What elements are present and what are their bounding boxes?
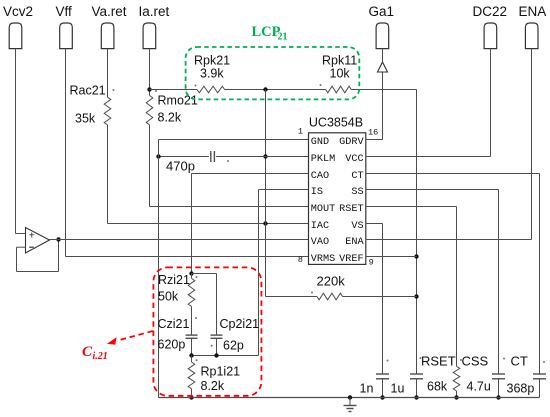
wire peak-limit divider vertical [263,90,267,297]
green dashed box LCP21 [186,24,360,99]
svg-text:368p: 368p [507,382,535,396]
svg-text:1: 1 [298,127,303,137]
svg-text:VREF: VREF [339,254,363,265]
wire Ia.ret lead [147,49,151,96]
svg-text:CAO: CAO [311,171,329,182]
svg-text:SS: SS [351,187,363,198]
resistor RSET 68k [420,354,460,400]
terminal Ga1 [369,4,395,49]
wire ground rail [159,397,540,399]
svg-text:VAO: VAO [311,237,329,248]
svg-text:CT: CT [511,354,528,369]
terminal Vff [56,4,73,49]
svg-text:ENA: ENA [345,237,364,248]
label Ci21 [82,344,108,362]
wire Vcv2 to op-amp + [16,49,26,234]
svg-text:GDRV: GDRV [339,137,364,148]
wire Rac21 to IAC pin [108,125,309,226]
svg-text:CT: CT [351,171,363,182]
capacitor Czi21 620p [158,317,198,352]
wire Rzi21 to Czi21 [191,306,193,335]
terminal ENA [519,4,547,49]
svg-text:4.7u: 4.7u [467,380,491,394]
wire CT pin to CT cap [366,174,540,375]
svg-text:Rac21: Rac21 [70,84,106,98]
capacitor Cp2i21 62p [211,274,260,356]
buffer triangle Ga1 [378,49,388,72]
svg-text:Ia.ret: Ia.ret [139,4,170,19]
wire Rpk21 to Rpk11 [225,87,326,91]
svg-text:68k: 68k [427,380,448,394]
op-amp U1 voltage follower [26,228,50,254]
wire IS pin down to compensation [259,190,309,356]
wire SS pin to CSS cap [366,190,499,375]
wire op-amp feedback [17,237,61,271]
resistor Rpk21 3.9k [194,54,230,93]
svg-text:i.21: i.21 [93,351,108,362]
svg-text:9: 9 [369,258,374,268]
op-amp U2 IC UC3854B [298,116,378,268]
wire op-amp output to VAO pin [50,239,309,241]
wire Vff to VRMS pin [66,49,309,257]
svg-text:470p: 470p [166,159,195,174]
svg-text:IAC: IAC [311,221,329,232]
svg-text:Ga1: Ga1 [369,4,395,19]
wire CAO pin down to compensation [192,174,309,274]
svg-text:+: + [29,230,35,242]
wire GDRV to Ga1 [366,72,383,140]
svg-text:8.2k: 8.2k [158,111,182,125]
wire VS pin to 1n cap [366,224,383,375]
red dashed box Ci21 [153,267,261,395]
resistor Rac21 35k [70,84,115,126]
svg-text:620p: 620p [158,338,186,352]
svg-text:3.9k: 3.9k [200,67,224,81]
ground symbol [344,395,357,411]
terminal DC22 [473,4,508,49]
svg-text:8: 8 [298,255,303,265]
resistor Rp1i21 8.2k [188,356,240,400]
resistor Rzi21 50k [158,273,198,306]
svg-text:Rmo21: Rmo21 [158,94,198,108]
wire RSET pin to RSET resistor [366,207,457,367]
wire Va.ret lead [107,49,109,98]
svg-text:1u: 1u [391,382,405,396]
wire Rmo21 to MOUT pin [150,125,309,207]
svg-text:Rpk11: Rpk11 [322,54,357,68]
wire 220k to VREF rail [343,296,417,298]
resistor 220k [311,274,345,300]
svg-text:ENA: ENA [519,4,547,19]
svg-text:50k: 50k [158,290,179,304]
svg-text:RSET: RSET [339,204,363,215]
svg-text:GND: GND [311,137,329,148]
svg-text:VRMS: VRMS [311,254,335,265]
node CAO top junction [189,271,216,278]
svg-text:21: 21 [278,32,288,43]
svg-text:Rp1i21: Rp1i21 [201,365,241,379]
wire IAC to 220k [266,296,318,298]
capacitor 470p [166,151,229,174]
capacitor CSS 4.7u [460,354,505,400]
svg-text:VCC: VCC [345,154,363,165]
node compensation bottom [189,353,258,357]
svg-text:IS: IS [311,187,323,198]
wire VCC to DC22 [366,49,491,157]
svg-text:Vff: Vff [56,4,73,19]
wire Czi21 to bottom node [191,338,193,355]
svg-text:Rzi21: Rzi21 [158,273,190,287]
svg-text:Vcv2: Vcv2 [3,4,33,19]
svg-text:10k: 10k [330,67,351,81]
svg-text:1n: 1n [360,382,374,396]
svg-text:62p: 62p [223,339,244,353]
red arrow annotation [107,331,153,345]
svg-text:Rpk21: Rpk21 [194,54,230,68]
svg-text:VS: VS [351,221,363,232]
svg-text:Czi21: Czi21 [158,317,190,331]
svg-text:8.2k: 8.2k [201,379,225,393]
svg-text:UC3854B: UC3854B [309,116,363,130]
resistor Rmo21 8.2k [146,90,198,125]
svg-text:DC22: DC22 [473,4,508,19]
capacitor 1n [360,360,390,400]
svg-text:Va.ret: Va.ret [92,4,127,19]
svg-text:Cp2i21: Cp2i21 [220,317,260,331]
svg-text:220k: 220k [317,274,346,289]
svg-text:LCP: LCP [252,24,281,40]
wire VREF stub [366,256,417,258]
terminal Va.ret [92,4,127,49]
resistor Rpk11 10k [320,54,358,93]
svg-text:16: 16 [368,128,378,138]
wire ENA pin to ENA terminal [366,49,532,240]
capacitor CT 368p [503,354,546,398]
wire PKLM wire [156,154,308,158]
wire Ia.ret to Rpk21 [150,89,198,91]
svg-text:PKLM: PKLM [311,154,335,165]
svg-text:CSS: CSS [462,354,489,369]
wire GND pin to ground rail [159,140,309,398]
svg-text:C: C [82,344,93,360]
terminal Vcv2 [3,4,33,49]
terminal Ia.ret [139,4,170,49]
svg-text:RSET: RSET [421,354,456,369]
svg-text:MOUT: MOUT [311,204,335,215]
wire Rpk11 to VREF rail [351,90,418,375]
capacitor 1u [391,374,424,400]
svg-text:35k: 35k [75,112,96,126]
